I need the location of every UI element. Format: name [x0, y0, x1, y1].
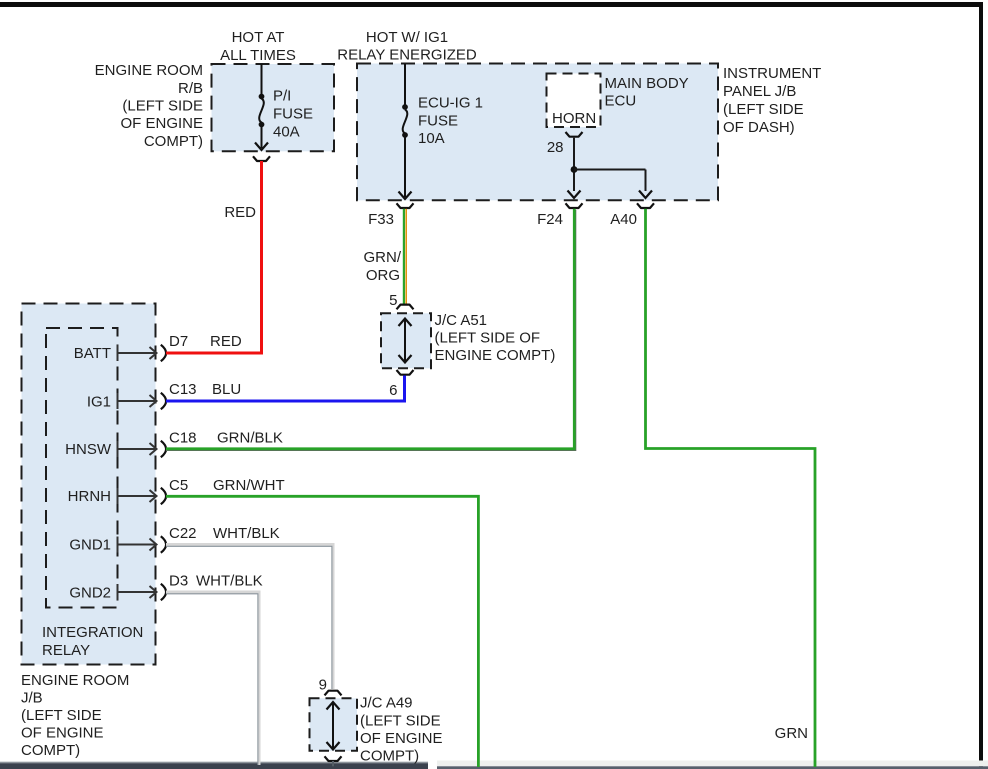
label J/C A51 (LEFT SIDE OF ENGINE COMPT): [435, 312, 556, 364]
wire GRN/WHT from HRNH down page: [166, 496, 478, 767]
svg-text:GRN: GRN: [775, 725, 808, 742]
wire BLU from IG1 to J/C A51 pin 6: [166, 376, 405, 402]
svg-text:HNSW: HNSW: [65, 441, 112, 458]
connector cup below HORN (pin 28): [547, 132, 583, 156]
svg-text:C5: C5: [169, 477, 188, 494]
svg-text:9: 9: [319, 677, 327, 694]
svg-text:BLU: BLU: [212, 381, 241, 398]
relay INTEGRATION RELAY (inner box): [42, 328, 143, 659]
pin IG1 C13: [87, 381, 241, 411]
svg-text:C13: C13: [169, 381, 197, 398]
svg-text:MAIN BODY: MAIN BODY: [605, 75, 689, 92]
label MAIN BODY ECU: [605, 75, 689, 110]
pin GND1 C22: [69, 525, 279, 554]
svg-text:ENGINE ROOM: ENGINE ROOM: [95, 62, 203, 79]
label HOT AT ALL TIMES: [220, 29, 296, 64]
junction connector J/C A49: [310, 677, 358, 767]
svg-text:(LEFT SIDE: (LEFT SIDE: [21, 707, 102, 724]
svg-text:RELAY: RELAY: [42, 642, 90, 659]
svg-text:COMPT): COMPT): [21, 742, 80, 759]
svg-text:WHT/BLK: WHT/BLK: [213, 525, 280, 542]
svg-text:ALL TIMES: ALL TIMES: [220, 47, 296, 64]
svg-text:ORG: ORG: [366, 267, 400, 284]
svg-text:HOT W/ IG1: HOT W/ IG1: [366, 29, 448, 46]
svg-text:5: 5: [389, 292, 397, 309]
svg-text:OF DASH): OF DASH): [723, 119, 795, 136]
fuse P/I FUSE 40A: [255, 64, 313, 150]
svg-text:J/B: J/B: [21, 690, 43, 707]
svg-text:ENGINE ROOM: ENGINE ROOM: [21, 672, 129, 689]
svg-text:RELAY ENERGIZED: RELAY ENERGIZED: [337, 47, 477, 64]
svg-text:(LEFT SIDE: (LEFT SIDE: [723, 101, 804, 118]
svg-text:OF ENGINE: OF ENGINE: [21, 725, 104, 742]
svg-text:OF ENGINE: OF ENGINE: [120, 115, 203, 132]
svg-text:J/C A49: J/C A49: [360, 695, 413, 712]
svg-text:FUSE: FUSE: [418, 113, 458, 130]
svg-text:(LEFT SIDE: (LEFT SIDE: [360, 713, 441, 730]
connector cup below P/I fuse: [253, 156, 270, 161]
svg-text:10A: 10A: [418, 130, 445, 147]
wire from HORN pin 28 with junction: [568, 138, 653, 198]
svg-text:C18: C18: [169, 430, 197, 447]
svg-text:(LEFT SIDE OF: (LEFT SIDE OF: [435, 330, 541, 347]
wire GRN from A40 down right side: [646, 209, 816, 767]
svg-text:ENGINE COMPT): ENGINE COMPT): [435, 347, 556, 364]
svg-text:HORN: HORN: [552, 110, 596, 127]
wire GRN/BLK from HNSW to F24: [166, 209, 576, 451]
svg-text:D7: D7: [169, 333, 188, 350]
svg-text:R/B: R/B: [178, 80, 203, 97]
connector cups below J/B: F33 F24 A40: [368, 203, 654, 228]
svg-text:GRN/BLK: GRN/BLK: [217, 430, 283, 447]
sub-box HORN of MAIN BODY ECU: [547, 74, 601, 128]
frame top border: [0, 2, 983, 7]
pin HNSW C18: [65, 430, 283, 459]
svg-text:P/I: P/I: [273, 88, 291, 105]
wire GRN/ORG from F33 to J/C A51 pin 5: [364, 209, 407, 305]
svg-text:GND1: GND1: [69, 537, 111, 554]
svg-text:6: 6: [389, 382, 397, 399]
label HOT W/ IG1 RELAY ENERGIZED: [337, 29, 477, 64]
svg-text:HRNH: HRNH: [68, 488, 111, 505]
svg-text:A40: A40: [610, 211, 637, 228]
wire RED from P/I fuse to BATT: [166, 161, 262, 353]
label ENGINE ROOM R/B (LEFT SIDE OF ENGINE COMPT): [95, 62, 203, 150]
fuse box ENGINE ROOM R/B: [212, 64, 335, 151]
junction box ENGINE ROOM J/B (outer): [22, 304, 156, 665]
svg-text:COMPT): COMPT): [360, 748, 419, 765]
svg-text:PANEL J/B: PANEL J/B: [723, 83, 796, 100]
junction box INSTRUMENT PANEL J/B (large box): [357, 64, 718, 201]
svg-text:GND2: GND2: [69, 585, 111, 602]
pin BATT D7: [74, 333, 242, 362]
svg-text:OF ENGINE: OF ENGINE: [360, 730, 443, 747]
svg-text:INTEGRATION: INTEGRATION: [42, 624, 143, 641]
label J/C A49 (LEFT SIDE OF ENGINE COMPT): [360, 695, 443, 765]
svg-text:RED: RED: [210, 333, 242, 350]
svg-text:WHT/BLK: WHT/BLK: [196, 573, 263, 590]
svg-text:C22: C22: [169, 525, 197, 542]
fuse ECU-IG 1 FUSE 10A: [399, 64, 484, 199]
svg-text:GRN/WHT: GRN/WHT: [213, 477, 285, 494]
svg-text:D3: D3: [169, 573, 188, 590]
svg-text:COMPT): COMPT): [144, 133, 203, 150]
label INSTRUMENT PANEL J/B (LEFT SIDE OF DASH): [723, 65, 821, 136]
svg-text:(LEFT SIDE: (LEFT SIDE: [122, 98, 203, 115]
svg-text:ECU-IG 1: ECU-IG 1: [418, 95, 483, 112]
svg-text:28: 28: [547, 139, 564, 156]
svg-text:IG1: IG1: [87, 394, 111, 411]
svg-text:BATT: BATT: [74, 345, 111, 362]
wire WHT/BLK from GND2 down page: [166, 592, 259, 765]
label ENGINE ROOM J/B (LEFT SIDE OF ENGINE COMPT): [21, 672, 129, 759]
svg-text:HOT AT: HOT AT: [232, 29, 285, 46]
svg-text:F24: F24: [537, 211, 563, 228]
svg-text:J/C A51: J/C A51: [435, 312, 488, 329]
bottom edge strip of next diagram section: [0, 761, 988, 769]
svg-text:FUSE: FUSE: [273, 106, 313, 123]
svg-text:ECU: ECU: [605, 93, 637, 110]
svg-text:INSTRUMENT: INSTRUMENT: [723, 65, 821, 82]
frame right border: [979, 2, 983, 769]
wire WHT/BLK from GND1 to J/C A49 pin 9: [166, 545, 333, 690]
pin GND2 D3: [69, 573, 262, 602]
svg-text:RED: RED: [224, 204, 256, 221]
svg-text:GRN/: GRN/: [364, 249, 402, 266]
pin HRNH C5: [68, 477, 285, 505]
svg-text:40A: 40A: [273, 124, 300, 141]
svg-text:F33: F33: [368, 211, 394, 228]
junction connector J/C A51: [381, 292, 431, 399]
